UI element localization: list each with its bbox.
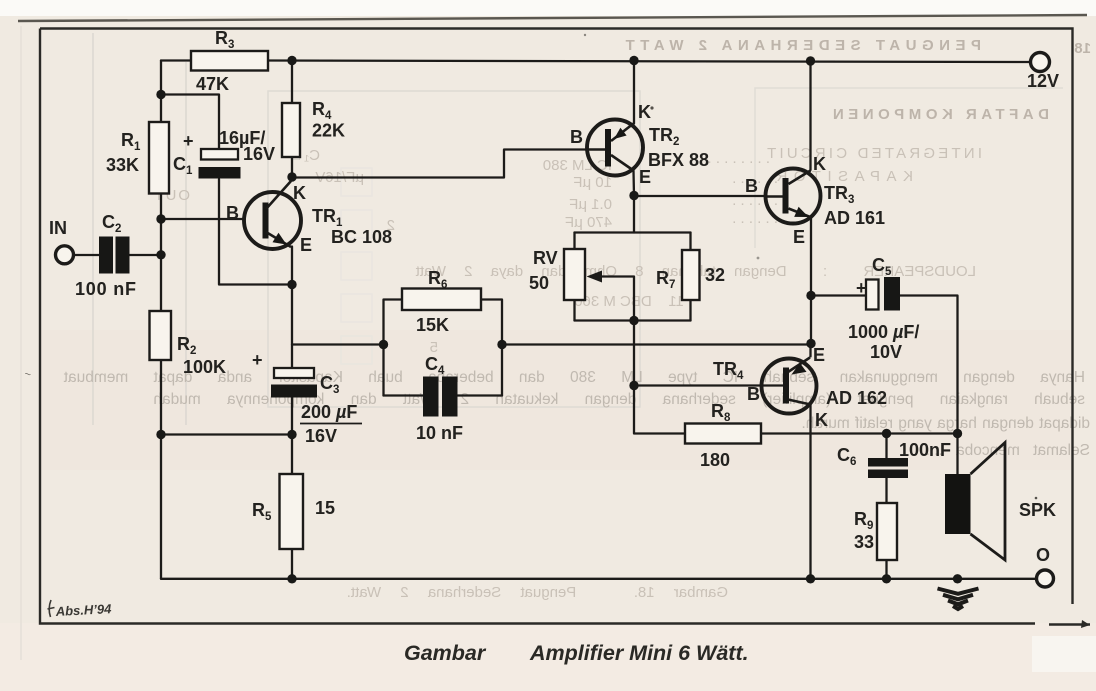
wire TR1 base <box>161 218 244 220</box>
svg-text:18: 18 <box>1074 40 1091 57</box>
node TR4 base <box>629 381 638 390</box>
node C2/R1/R2 <box>156 250 165 259</box>
capacitor C3 <box>271 368 317 398</box>
svg-text:100nF: 100nF <box>899 440 951 460</box>
svg-text:16V: 16V <box>305 426 337 446</box>
svg-text:32: 32 <box>705 265 725 285</box>
transistor TR3 AD161 <box>766 169 821 224</box>
resistor R5 <box>280 474 304 549</box>
svg-text:Gambar 18. Penguat Sederhana: Gambar 18. Penguat Sederhana 2 Watt. <box>347 584 728 601</box>
ground <box>938 589 979 610</box>
svg-text:+: + <box>183 131 194 151</box>
svg-text:22K: 22K <box>312 121 345 141</box>
wire bracket bottom <box>575 319 691 321</box>
capacitor C1 <box>199 149 241 179</box>
node TR1 collector <box>287 172 296 181</box>
svg-text:E: E <box>300 235 312 255</box>
transistor TR4 AD162 <box>762 358 817 414</box>
wire top rail <box>268 61 1031 63</box>
svg-text:15K: 15K <box>416 315 449 335</box>
capacitor C5 <box>866 277 900 311</box>
svg-text:+: + <box>252 350 263 370</box>
svg-text:didapat dengan harga yang rela: didapat dengan harga yang relatif murah. <box>801 415 1090 432</box>
svg-text:200 µF: 200 µF <box>301 402 357 422</box>
wire RV wiper run <box>600 277 634 321</box>
svg-text:PENGUAT SEDERHANA 2 WATT: PENGUAT SEDERHANA 2 WATT <box>620 37 981 54</box>
wire TR2 emitter <box>632 171 635 197</box>
capacitor C6 <box>868 458 908 478</box>
wire RV stubs <box>573 233 575 321</box>
svg-text:15: 15 <box>315 498 335 518</box>
svg-text:K: K <box>813 154 826 174</box>
resistor R7 <box>682 250 700 300</box>
page left edge faint line <box>20 26 22 660</box>
node R2 bottom <box>156 430 165 439</box>
wire top rail left <box>161 59 191 61</box>
svg-text:BC 108: BC 108 <box>331 227 392 247</box>
svg-text:Abs.Hʼ94: Abs.Hʼ94 <box>54 601 112 619</box>
wire bottom rail <box>161 578 1037 580</box>
resistor R1 <box>149 122 169 194</box>
svg-text:50: 50 <box>529 273 549 293</box>
underline for 200 uF value <box>300 423 362 425</box>
wire C5 right to speaker <box>900 296 958 475</box>
resistor R6 <box>402 289 481 311</box>
wire feedback left segment <box>292 343 384 345</box>
node TR1 base <box>156 214 165 223</box>
wire TR3 emitter down <box>810 218 812 344</box>
svg-text:B: B <box>226 203 239 223</box>
node R9 bottom <box>882 574 891 583</box>
node C6 top <box>882 429 891 438</box>
node TR4 collector bottom <box>806 574 815 583</box>
svg-text:K: K <box>815 410 828 430</box>
bleed-through: small pin boxes <box>341 168 372 364</box>
svg-text:33K: 33K <box>106 155 139 175</box>
bleed-through: big faint box <box>268 91 640 407</box>
svg-text:. . . . . . . .: . . . . . . . . <box>707 150 770 167</box>
wire R2-C3 bottom link <box>161 433 292 435</box>
wire R4 top <box>291 61 293 104</box>
wire to RV bracket <box>633 196 635 233</box>
svg-text:B: B <box>570 127 583 147</box>
svg-text:Gambar: Gambar <box>404 641 487 665</box>
svg-text:33: 33 <box>854 532 874 552</box>
terminal IN <box>56 246 74 264</box>
node R4 rail <box>287 56 296 65</box>
wire TR3 collector to rail <box>809 61 811 170</box>
node R3/R1/C1 <box>156 90 165 99</box>
svg-text:IN: IN <box>49 218 67 238</box>
node C5 tap <box>806 291 815 300</box>
wire R1 to R2 <box>160 194 162 312</box>
svg-text:SPK: SPK <box>1019 500 1056 520</box>
wire bracket top <box>575 231 691 233</box>
node speaker bottom <box>953 574 962 583</box>
node TR2 collector rail <box>629 56 638 65</box>
handwritten signature Abs.H'94 <box>48 600 55 617</box>
wire C5 left <box>811 294 866 296</box>
wire C3 bottom <box>291 398 293 435</box>
svg-text:E: E <box>793 227 805 247</box>
svg-text:47K: 47K <box>196 74 229 94</box>
svg-text:0.1 µF: 0.1 µF <box>569 196 612 213</box>
wire R2 down to bottom <box>160 360 162 579</box>
wire R8 right run <box>761 432 958 434</box>
terminal 12V <box>1031 53 1050 72</box>
node speaker line <box>953 429 962 438</box>
wire TR1 emitter down <box>291 247 293 368</box>
resistor R2 <box>150 311 172 360</box>
resistor R8 <box>685 424 761 444</box>
svg-text:10 nF: 10 nF <box>416 423 463 443</box>
node C3 bottom <box>287 430 296 439</box>
svg-text:12V: 12V <box>1027 71 1059 91</box>
svg-text:O: O <box>1036 545 1050 565</box>
svg-text:16V: 16V <box>243 144 275 164</box>
wire to R8 <box>634 386 685 434</box>
page top edge scan line <box>18 15 1087 21</box>
svg-text:10 µF: 10 µF <box>573 174 612 191</box>
svg-text:11 DBC M 360: 11 DBC M 360 <box>574 293 684 310</box>
svg-text:+: + <box>856 278 867 298</box>
node loop right <box>497 340 506 349</box>
svg-text:180: 180 <box>700 450 730 470</box>
potentiometer RV wiper arrow <box>587 271 603 283</box>
wire C1 top link <box>161 95 219 153</box>
node TR3 collector rail <box>806 56 815 65</box>
svg-text:Amplifier Mini 6 Wätt.: Amplifier Mini 6 Wätt. <box>529 641 749 665</box>
svg-text:B: B <box>747 384 760 404</box>
resistor R4 <box>282 103 300 157</box>
capacitor C2 <box>99 237 130 274</box>
wire R4 bottom <box>291 157 293 177</box>
resistors <box>149 51 897 560</box>
node loop left <box>379 340 388 349</box>
node TR1 emitter <box>287 280 296 289</box>
node R5 bottom <box>287 574 296 583</box>
wire TR4 emitter stub <box>809 344 811 357</box>
capacitor C4 <box>423 377 458 417</box>
wire C2 right <box>130 254 162 256</box>
resistor R9 <box>877 503 897 560</box>
bleed-through: faint box left <box>92 33 94 425</box>
svg-text:B: B <box>745 176 758 196</box>
svg-text:BFX 88: BFX 88 <box>648 150 709 170</box>
transistor TR1 BC108 <box>244 181 301 249</box>
wire C1 bottom link <box>219 179 292 285</box>
wire C6 R9 chain <box>885 434 887 579</box>
svg-text:1000 µF/: 1000 µF/ <box>848 322 919 342</box>
wire TR4 collector down <box>809 405 811 579</box>
node TR2 emitter <box>629 191 638 200</box>
wire TR4 base <box>634 384 783 386</box>
node TR4 emitter <box>806 339 815 348</box>
wire TR2 collector to rail <box>633 61 635 124</box>
transistor TR2 BFX88 <box>587 120 643 176</box>
wire C4 stubs <box>384 394 503 396</box>
svg-text:100 nF: 100 nF <box>75 279 137 299</box>
svg-text:AD 162: AD 162 <box>826 388 887 408</box>
svg-text:100K: 100K <box>183 357 226 377</box>
svg-text:470 µF: 470 µF <box>565 214 612 231</box>
svg-text:10V: 10V <box>870 342 902 362</box>
svg-text:INTEGRATED CIRCUIT: INTEGRATED CIRCUIT <box>764 145 982 162</box>
terminal O <box>1037 570 1054 587</box>
svg-text:E: E <box>813 345 825 365</box>
wire left vertical top <box>160 61 162 123</box>
wire feedback right segment <box>502 343 811 345</box>
wire TR1 collector to TR2 base <box>292 150 588 178</box>
svg-text:E: E <box>639 167 651 187</box>
svg-text:K: K <box>293 183 306 203</box>
wire TR2 emitter to TR3 base <box>634 195 766 197</box>
loudspeaker SPK <box>945 443 1005 561</box>
wire down to TR4 base node <box>633 321 635 386</box>
svg-text:K: K <box>638 102 651 122</box>
wire C2 left <box>74 254 100 256</box>
wire R6/C4 loop left <box>384 300 403 396</box>
svg-text:RV: RV <box>533 248 558 268</box>
bleed-through: right faint box lines <box>755 88 1063 248</box>
wire R6/C4 loop right <box>481 300 502 396</box>
svg-text:AD 161: AD 161 <box>824 208 885 228</box>
wire to R5 <box>291 435 293 475</box>
resistor R3 <box>191 51 268 71</box>
node RV bottom <box>629 316 638 325</box>
potentiometer RV body <box>564 249 585 300</box>
wire R5 bottom <box>291 549 293 579</box>
wire R7 stubs <box>689 233 691 321</box>
svg-text:DAFTAR KOMPONEN: DAFTAR KOMPONEN <box>828 106 1049 123</box>
